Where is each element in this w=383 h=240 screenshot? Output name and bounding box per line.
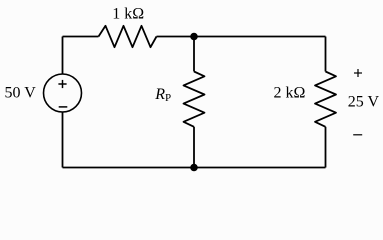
wire right-lower — [325, 127, 327, 168]
wire middle-upper — [193, 37, 195, 72]
voltage source plus sign — [58, 80, 66, 88]
wire right-upper — [325, 37, 327, 72]
wire left-upper — [62, 37, 64, 75]
svg-text:1 kΩ: 1 kΩ — [112, 6, 144, 23]
node junction top — [190, 33, 198, 41]
wire middle-lower — [193, 127, 195, 168]
svg-text:2 kΩ: 2 kΩ — [274, 85, 306, 102]
wire bottom — [63, 167, 326, 169]
wire top-right — [157, 36, 326, 38]
svg-text:RP: RP — [154, 86, 171, 104]
svg-text:50 V: 50 V — [5, 85, 37, 102]
wire top-left — [63, 36, 99, 38]
voltage source minus sign — [59, 106, 68, 108]
resistor RP — [184, 72, 205, 127]
voltage source V1 circle — [44, 74, 82, 112]
svg-text:25 V: 25 V — [348, 94, 380, 111]
wire left-lower — [62, 112, 64, 168]
polarity plus (right) — [354, 69, 362, 77]
polarity minus (right) — [353, 134, 362, 136]
resistor R2 (2 kΩ) — [315, 72, 336, 127]
resistor R1 (1 kΩ) — [99, 26, 157, 47]
node junction bottom — [190, 164, 198, 172]
